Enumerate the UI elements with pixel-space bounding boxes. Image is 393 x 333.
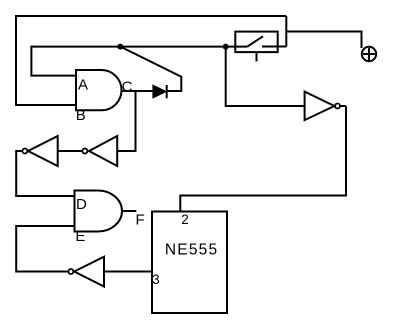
svg-text:3: 3 (152, 272, 160, 287)
svg-text:2: 2 (181, 212, 189, 227)
svg-text:B: B (76, 107, 86, 124)
svg-text:C: C (122, 78, 133, 95)
svg-text:F: F (136, 212, 145, 229)
svg-text:NE555: NE555 (165, 241, 218, 258)
svg-text:E: E (75, 228, 85, 245)
svg-text:D: D (76, 196, 87, 213)
svg-text:A: A (78, 77, 88, 94)
